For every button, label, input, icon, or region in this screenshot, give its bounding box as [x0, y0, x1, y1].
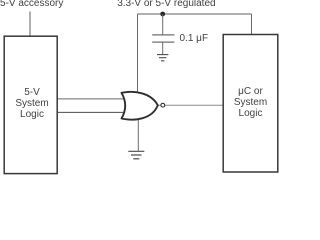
- wire: capacitor to ground: [162, 42, 164, 54]
- label: 5-V accessory: [0, 0, 63, 9]
- wire: gate input 1 from left box: [57, 98, 126, 100]
- block: 5-V System Logic box: [4, 36, 57, 173]
- ground (capacitor): [157, 55, 168, 61]
- wire: rail to capacitor C1: [162, 14, 164, 35]
- label: 3.3-V or 5-V regulated: [117, 0, 215, 9]
- capacitor C1 0.1 uF: [152, 35, 174, 42]
- wire: NOR gate to ground: [137, 117, 139, 151]
- block: uC or System Logic box: [223, 35, 278, 173]
- wire: NOR gate output to right box: [157, 104, 223, 106]
- wire: rail down to right box: [251, 14, 253, 35]
- wire: rail down to NOR gate Vcc: [137, 14, 139, 96]
- label: 5-V System Logic: [6, 87, 59, 120]
- label: uC or System Logic: [223, 86, 278, 119]
- label: 0.1 uF: [180, 33, 209, 44]
- node: 3.3-V/5-V regulated rail: [138, 13, 252, 15]
- ground (NOR gate): [128, 151, 144, 159]
- wire: leader from 5-V accessory label to left box: [29, 12, 31, 37]
- junction dot on rail: [160, 12, 165, 17]
- wire: gate input 2 from left box: [57, 111, 126, 113]
- NOR gate inverting bubble: [161, 103, 165, 107]
- NOR gate U1 body: [122, 92, 158, 120]
